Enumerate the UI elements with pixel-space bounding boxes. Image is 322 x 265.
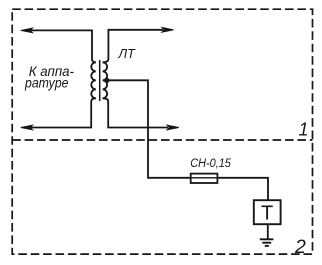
svg-text:Т: Т <box>261 203 273 225</box>
svg-text:1: 1 <box>299 120 309 140</box>
svg-text:ратуре: ратуре <box>24 76 69 91</box>
svg-text:ЛТ: ЛТ <box>118 47 137 61</box>
svg-text:СН-0,15: СН-0,15 <box>190 158 231 170</box>
svg-text:2: 2 <box>294 236 306 258</box>
